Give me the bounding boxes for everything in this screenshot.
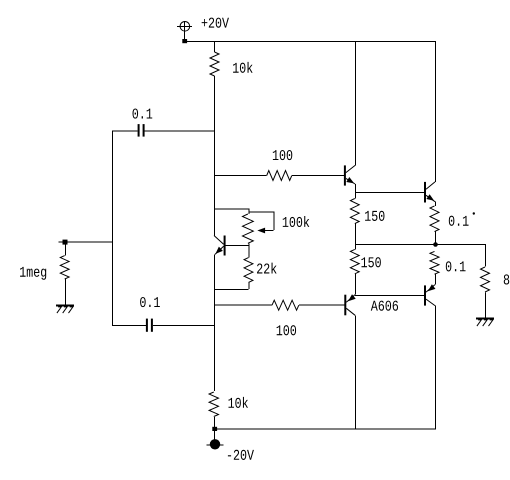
label 10k (bottom) [228, 397, 248, 408]
resistor R3 100 (top) [214, 171, 344, 181]
wire Q5 collector [435, 306, 437, 429]
power supply +20V symbol [177, 21, 192, 41]
wire top rail +20V [185, 41, 436, 43]
resistor R8 0.1 (upper) [430, 202, 439, 244]
label 0.1 (C1) [133, 108, 153, 118]
wire Q3 collector [355, 41, 357, 165]
label 10k (top) [233, 62, 253, 73]
wire bus upper [214, 76, 216, 236]
label 0.1 (R9) [446, 261, 466, 271]
label 100k [283, 216, 310, 227]
potentiometer R4 100k [243, 212, 274, 245]
wire Q6 collector [355, 315, 357, 428]
transistor Q2 [214, 236, 248, 256]
resistor R11 8 [481, 244, 490, 317]
transistor Q3 [344, 165, 355, 185]
transistor Q6 A606 [344, 294, 355, 315]
label 22k [257, 263, 277, 274]
label 100 (top) [273, 150, 292, 160]
power supply -20V symbol [207, 430, 224, 449]
resistor R10 100 (bottom) [214, 300, 344, 310]
resistor R5 22k [214, 245, 253, 289]
label 100 (bottom) [277, 325, 296, 335]
transistor Q5 [424, 284, 435, 305]
wire Q5 base [355, 295, 424, 297]
transistor Q4 [424, 41, 436, 203]
node output junction [433, 242, 438, 247]
wire bottom rail [214, 428, 436, 430]
node -20V junction [212, 427, 217, 431]
ground (8 ohm) [476, 318, 494, 326]
capacitor C2 0.1 (bottom) [112, 319, 214, 332]
label A606 [371, 301, 398, 311]
label -20V [228, 450, 254, 460]
label 1meg [20, 267, 46, 280]
label 150 (lower) [361, 257, 380, 267]
wire mid rail [355, 244, 486, 246]
node +20V junction [182, 39, 187, 43]
capacitor C1 0.1 (top) [112, 124, 214, 137]
resistor R6 150 (upper) [350, 199, 359, 245]
resistor R2 1meg [60, 244, 69, 304]
wire bus lower [214, 254, 216, 391]
wire input vertical [112, 130, 114, 325]
label 0.1 (R8) [449, 216, 469, 226]
label 8 [504, 274, 509, 284]
resistor R7 150 (lower) [350, 244, 359, 295]
ground (1meg) [56, 305, 74, 313]
stray dot [473, 212, 475, 214]
resistor R12 10k (bottom) [209, 392, 218, 429]
node input junction [59, 240, 113, 245]
wire bus to pot [214, 208, 249, 214]
wire Q3 emitter node [355, 184, 424, 199]
label 0.1 (C2) [140, 297, 160, 307]
resistor R9 0.1 (lower) [430, 251, 439, 284]
resistor R1 10k [210, 41, 219, 76]
label 150 (upper) [365, 211, 384, 221]
label +20V [202, 18, 229, 28]
